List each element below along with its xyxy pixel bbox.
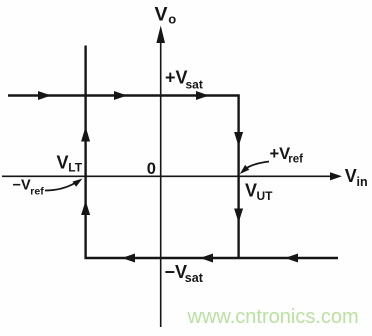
svg-text:+V: +V [270, 145, 291, 163]
svg-text:V: V [345, 166, 357, 186]
svg-text:sat: sat [186, 78, 203, 92]
svg-text:+V: +V [165, 68, 188, 88]
svg-text:o: o [168, 12, 176, 27]
svg-text:−V: −V [13, 178, 31, 194]
svg-text:ref: ref [288, 154, 303, 166]
svg-text:ref: ref [30, 186, 44, 198]
svg-text:V: V [155, 4, 168, 26]
svg-text:UT: UT [257, 189, 274, 203]
svg-text:LT: LT [68, 161, 82, 175]
svg-text:0: 0 [147, 160, 156, 178]
svg-text:in: in [357, 175, 368, 189]
svg-text:sat: sat [185, 271, 204, 285]
svg-text:www.cntronics.com: www.cntronics.com [187, 306, 359, 328]
svg-text:−V: −V [165, 262, 188, 282]
svg-text:V: V [245, 181, 257, 201]
svg-text:V: V [57, 153, 69, 173]
